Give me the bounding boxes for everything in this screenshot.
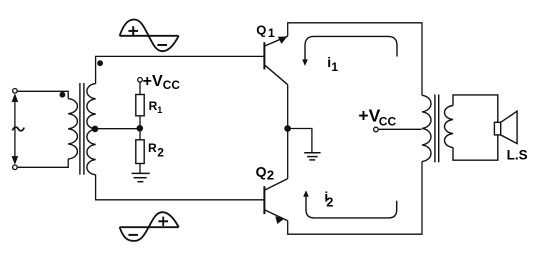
ac source V1 bbox=[12, 89, 25, 170]
+Vcc terminal right bbox=[374, 127, 379, 132]
transistor Q1 bbox=[264, 36, 287, 84]
svg-text:CC: CC bbox=[379, 114, 397, 128]
polarity dot primary bbox=[60, 92, 66, 98]
wire secondary bottom to Q2 base bbox=[96, 175, 265, 200]
wire Q1 emitter to top rail bbox=[288, 23, 422, 96]
resistor R2 bbox=[136, 140, 144, 164]
label Q2 bbox=[256, 164, 275, 183]
wire Vcc to T2 center tap bbox=[378, 128, 421, 130]
svg-text:1: 1 bbox=[268, 26, 275, 40]
transformer T1 primary winding bbox=[68, 99, 77, 159]
svg-text:2: 2 bbox=[157, 145, 164, 159]
sine wave symbol top bbox=[120, 20, 179, 52]
transformer T1 core bbox=[80, 83, 84, 175]
transformer T2 core bbox=[435, 95, 439, 163]
label +Vcc left bbox=[143, 73, 181, 92]
transformer T2 primary winding bbox=[422, 95, 431, 161]
ground under R2 bbox=[132, 173, 150, 181]
svg-text:1: 1 bbox=[331, 60, 338, 74]
transformer T2 secondary winding bbox=[445, 106, 453, 148]
resistor R1 bbox=[136, 95, 144, 116]
node divider junction bbox=[137, 125, 144, 132]
wire Vcc to R1 bbox=[139, 82, 141, 94]
wire junction to ground bbox=[288, 129, 312, 153]
wire Q2 emitter to bottom rail bbox=[288, 162, 422, 235]
label i1 bbox=[327, 54, 338, 74]
wire R2 to ground bbox=[139, 164, 141, 174]
svg-text:L.S: L.S bbox=[507, 148, 528, 163]
wire Q1 collector down to junction bbox=[287, 85, 289, 129]
svg-text:+V: +V bbox=[143, 73, 163, 90]
node center tap bbox=[92, 126, 99, 133]
+Vcc terminal left bbox=[138, 78, 143, 83]
current arrow i2 bbox=[303, 190, 397, 218]
ground center bbox=[304, 153, 320, 160]
svg-text:CC: CC bbox=[163, 78, 181, 92]
svg-text:+V: +V bbox=[358, 105, 380, 125]
wire top source to transformer bbox=[17, 91, 68, 98]
load box bbox=[453, 95, 498, 160]
transformer T1 secondary winding bbox=[87, 84, 96, 175]
polarity dot secondary bbox=[97, 60, 103, 66]
label R2 bbox=[148, 141, 164, 159]
svg-text:2: 2 bbox=[326, 195, 333, 209]
svg-text:2: 2 bbox=[267, 168, 274, 183]
speaker driver bbox=[494, 122, 500, 135]
transistor Q2 bbox=[264, 179, 287, 224]
label Q1 bbox=[256, 22, 275, 40]
label R1 bbox=[149, 99, 163, 115]
sine wave symbol bottom bbox=[120, 212, 179, 241]
label i2 bbox=[324, 188, 333, 209]
svg-text:R: R bbox=[148, 141, 157, 155]
speaker horn bbox=[501, 111, 517, 143]
svg-text:Q: Q bbox=[256, 22, 266, 37]
wire center tap to divider bbox=[96, 128, 140, 130]
current arrow i1 bbox=[302, 36, 397, 66]
svg-text:1: 1 bbox=[157, 105, 162, 115]
label +Vcc right bbox=[358, 105, 396, 128]
wire R1 to junction bbox=[139, 116, 141, 140]
wire secondary top to Q1 base bbox=[96, 56, 265, 83]
svg-text:Q: Q bbox=[256, 164, 267, 180]
node collector junction bbox=[284, 125, 291, 132]
wire Q2 collector up to junction bbox=[287, 129, 289, 179]
wire bottom source to transformer bbox=[17, 159, 68, 167]
